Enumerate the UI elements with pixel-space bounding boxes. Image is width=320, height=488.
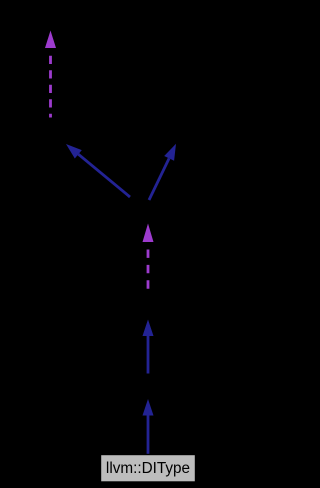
dashed usage edge into middle node (purple) <box>143 224 154 293</box>
inheritance edge (navy solid, middle) <box>143 320 154 374</box>
svg-text:llvm::DIType: llvm::DIType <box>106 460 190 477</box>
dashed usage edge to top node (purple) <box>45 31 56 118</box>
inheritance edge from llvm::DIType (navy solid, bottom) <box>143 399 154 455</box>
inheritance edge to upper-right node (navy solid) <box>149 144 176 200</box>
node llvm::DIType (highlighted grey box) <box>101 455 196 483</box>
inheritance edge to upper-left node (navy solid) <box>66 144 130 197</box>
